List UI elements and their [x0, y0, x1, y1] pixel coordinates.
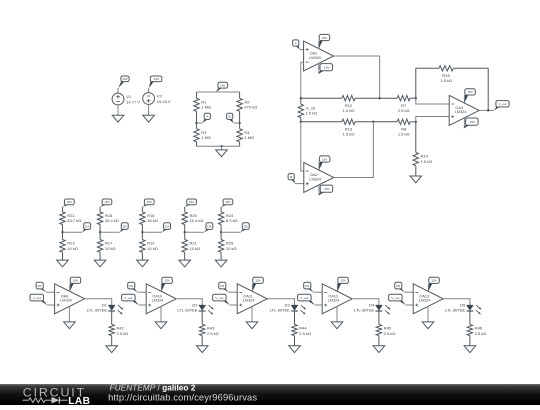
resistor R42 2.5 kohm	[109, 311, 128, 346]
resistor R13 1.5 kΩ	[301, 119, 374, 137]
power flag -15V at OA3	[464, 118, 478, 129]
junction OA1 feedback / R12 / R7	[378, 97, 380, 99]
svg-text:V_out: V_out	[300, 296, 308, 300]
svg-text:LM324: LM324	[455, 110, 467, 114]
ground at OA12	[331, 322, 343, 329]
svg-text:LM324: LM324	[328, 299, 340, 303]
svg-text:LM324: LM324	[60, 299, 72, 303]
node A flag	[202, 113, 210, 123]
node flag D1	[82, 223, 91, 233]
svg-text:1.5 kΩ: 1.5 kΩ	[343, 132, 355, 137]
junction OA2 feedback / R13 / R8	[372, 121, 374, 123]
svg-text:10 kΩ: 10 kΩ	[67, 246, 78, 251]
svg-text:-15V: -15V	[323, 187, 330, 191]
wire V_out to OA12 +	[315, 304, 322, 306]
wire OA9 ground stem	[68, 306, 70, 322]
node flag D4	[204, 223, 213, 233]
wire OA13 output to LED D5	[443, 299, 470, 305]
svg-text:15V: 15V	[322, 157, 328, 161]
ground at divider D4	[179, 260, 191, 267]
resistor R46 2.5 kohm	[467, 311, 486, 346]
svg-text:LTL-30TEE: LTL-30TEE	[270, 308, 290, 313]
power flag 15V at divider D2	[100, 199, 112, 207]
power flag 15V at V1	[118, 76, 129, 88]
junction divider D2 node	[99, 231, 101, 233]
wire OA9 output to LED D1	[85, 299, 112, 305]
svg-text:15V: 15V	[255, 279, 261, 283]
net flag V_out at OA13 input	[389, 294, 406, 305]
wire bridge bottom rail	[197, 145, 240, 147]
node A junction	[195, 122, 197, 124]
svg-text:10 kΩ: 10 kΩ	[190, 246, 201, 251]
node flag D4 at OA12 input	[304, 282, 314, 292]
power flag 15V at divider D1	[63, 199, 75, 207]
wire V2 top	[148, 88, 150, 93]
svg-text:D1: D1	[38, 284, 42, 288]
svg-text:D2: D2	[123, 224, 127, 228]
svg-text:1 MΩ: 1 MΩ	[201, 105, 211, 110]
node B flag at OA2 input	[288, 174, 295, 184]
svg-text:53.7 kΩ: 53.7 kΩ	[67, 218, 81, 223]
resistor R21 10 kohm	[182, 232, 200, 260]
power flag 15V at OA1	[319, 34, 330, 48]
node flag D3 at OA11 input	[219, 282, 229, 292]
svg-text:15V: 15V	[431, 279, 437, 283]
svg-text:15V: 15V	[322, 36, 328, 40]
wire OA10 ground stem	[160, 306, 162, 322]
power flag 15V at OA2	[319, 156, 330, 170]
wire OA1 output feedback	[334, 56, 380, 98]
node flag D2 at OA10 input	[128, 282, 138, 292]
op-amp OA3 LM324	[449, 95, 479, 125]
svg-text:-15V: -15V	[323, 65, 330, 69]
wire OA1 - input rail	[301, 62, 304, 98]
svg-text:470 kΩ: 470 kΩ	[244, 105, 257, 110]
wire V_out to OA10 +	[139, 304, 146, 306]
wire A to OA1 +	[300, 49, 304, 51]
net flag V_out at OA9 input	[30, 294, 47, 305]
wire D1 to OA9 -	[46, 291, 55, 293]
ground at V1	[112, 115, 124, 122]
wire D4 to OA12 -	[313, 291, 322, 293]
junction G bottom node	[300, 121, 302, 123]
wire B to OA2 +	[295, 183, 304, 185]
svg-text:LTL-30TEE: LTL-30TEE	[87, 308, 107, 313]
resistor R24 8.3 kohm	[218, 207, 237, 232]
svg-text:D1: D1	[85, 224, 89, 228]
wire to flag D1	[63, 231, 83, 233]
node A flag at OA1 input	[293, 40, 300, 50]
svg-text:LM324: LM324	[152, 299, 164, 303]
svg-text:LTL-30TEE: LTL-30TEE	[177, 308, 197, 313]
svg-text:10 kΩ: 10 kΩ	[105, 246, 116, 251]
svg-text:10.4 kΩ: 10.4 kΩ	[190, 218, 204, 223]
power flag 15V at OA10	[161, 277, 172, 291]
resistor R17 10 kohm	[97, 232, 115, 260]
power flag 15V at divider D4	[185, 199, 197, 207]
ground at OA10	[155, 322, 167, 329]
wire to flag D5	[221, 231, 241, 233]
svg-text:V_out: V_out	[391, 296, 399, 300]
wire bridge top rail	[197, 91, 240, 93]
svg-text:1 MΩ: 1 MΩ	[244, 135, 254, 140]
op-amp OA2 LM324	[304, 163, 334, 193]
svg-text:2.5 kΩ: 2.5 kΩ	[475, 331, 487, 336]
wire OA12 ground stem	[336, 306, 338, 322]
resistor R8 1.5 kΩ	[373, 119, 415, 137]
wire to node B flag	[234, 122, 240, 124]
svg-text:2.5 kΩ: 2.5 kΩ	[117, 331, 129, 336]
svg-text:-15V: -15V	[469, 120, 476, 124]
svg-text:B: B	[290, 175, 292, 179]
svg-text:D4: D4	[207, 224, 211, 228]
svg-text:15.18 V: 15.18 V	[157, 99, 171, 104]
svg-text:15V: 15V	[104, 200, 110, 204]
junction OA3 output / feedback	[487, 109, 489, 111]
net flag V_out at OA12 input	[298, 294, 315, 305]
wire to flag D2	[100, 231, 120, 233]
wire OA11 ground stem	[251, 306, 253, 322]
wire OA2 - input rail	[301, 122, 304, 171]
net flag V_out at OA11 input	[213, 294, 230, 305]
svg-text:15V: 15V	[122, 77, 128, 81]
svg-text:10 kΩ: 10 kΩ	[147, 246, 158, 251]
resistor R4 1 MΩ	[237, 123, 254, 146]
op-amp OA11 LM324	[237, 284, 267, 314]
resistor R3 1 MΩ	[194, 123, 211, 146]
voltage source V1 14.77 V	[112, 93, 140, 105]
resistor R1 1 MΩ	[194, 92, 211, 123]
LED D2 LTL-30TEE	[177, 303, 213, 315]
LED D4 LTL-30TEE	[354, 303, 390, 315]
ground at bridge	[216, 150, 228, 157]
wire OA13 ground stem	[427, 306, 429, 322]
svg-text:1.5 kΩ: 1.5 kΩ	[398, 132, 410, 137]
ground at V2	[143, 115, 155, 122]
ground at OA13	[422, 322, 434, 329]
node flag D2	[120, 223, 129, 233]
power flag 15V at OA3	[464, 89, 475, 103]
svg-text:15V: 15V	[73, 279, 79, 283]
resistor R14 1.5 kΩ	[413, 122, 432, 176]
svg-text:10 kΩ: 10 kΩ	[226, 246, 237, 251]
junction R7 / R15 / OA3-	[415, 97, 417, 99]
ground at OA11	[246, 322, 258, 329]
ground below R46	[464, 346, 476, 353]
svg-text:LTL-30TEE: LTL-30TEE	[445, 308, 465, 313]
resistor R20 10.4 kohm	[182, 207, 203, 232]
net flag V_out at OA10 input	[122, 294, 139, 305]
svg-text:15V: 15V	[67, 200, 73, 204]
svg-text:15V: 15V	[220, 83, 226, 87]
wire OA12 output to LED D4	[352, 299, 379, 305]
svg-text:25.4 kΩ: 25.4 kΩ	[105, 218, 119, 223]
svg-text:LM324: LM324	[243, 299, 255, 303]
svg-text:D5: D5	[244, 224, 248, 228]
svg-text:V_out: V_out	[215, 296, 223, 300]
svg-text:V_out: V_out	[124, 296, 132, 300]
svg-text:D3: D3	[165, 224, 169, 228]
node flag D1 at OA9 input	[36, 282, 46, 292]
junction bridge bottom	[220, 145, 222, 147]
node flag D5	[241, 223, 250, 233]
svg-text:LM324: LM324	[309, 56, 321, 60]
power flag 15V at OA9	[70, 277, 81, 291]
svg-text:LM324: LM324	[309, 177, 321, 181]
node B junction	[238, 122, 240, 124]
resistor R12 1.5 kΩ	[301, 96, 380, 114]
node flag D3	[162, 223, 171, 233]
junction divider D3 node	[141, 231, 143, 233]
voltage source V2 15.18 V	[143, 93, 171, 105]
ground below R43	[196, 346, 208, 353]
resistor R18 18 kohm	[140, 207, 158, 232]
svg-text:D4: D4	[305, 284, 309, 288]
resistor R7 1.5 kΩ	[380, 96, 416, 114]
junction divider D4 node	[184, 231, 186, 233]
power flag 15V at bridge top	[216, 82, 228, 92]
ground below R44	[289, 346, 301, 353]
svg-text:15V: 15V	[225, 200, 231, 204]
svg-text:2.5 kΩ: 2.5 kΩ	[384, 331, 396, 336]
svg-text:D5: D5	[396, 284, 400, 288]
power flag -15V at OA1	[318, 63, 332, 74]
resistor R43 2.5 kohm	[200, 311, 219, 346]
wire V2 bottom	[148, 104, 150, 115]
wire D2 to OA10 -	[137, 291, 146, 293]
svg-text:1.5 kΩ: 1.5 kΩ	[421, 159, 433, 164]
net flag V_out at OA3 output	[494, 101, 509, 111]
svg-text:-15V: -15V	[153, 77, 160, 81]
svg-text:15V: 15V	[146, 200, 152, 204]
power flag 15V at OA12	[337, 277, 348, 291]
resistor R15 1.5 kΩ feedback	[416, 66, 488, 111]
junction divider D1 node	[61, 231, 63, 233]
power flag 15V at OA13	[428, 277, 439, 291]
wire V_out to OA9 +	[47, 304, 54, 306]
resistor R2 470 kΩ	[237, 92, 257, 123]
svg-text:1.5 kΩ: 1.5 kΩ	[398, 108, 410, 113]
footer bar	[0, 384, 540, 405]
op-amp OA12 LM324	[322, 284, 352, 314]
wire D3 to OA11 -	[228, 291, 237, 293]
resistor R16 25.4 kohm	[97, 207, 118, 232]
wire to node A flag	[197, 122, 203, 124]
op-amp OA10 LM324	[146, 284, 176, 314]
power flag -15V at V2	[149, 76, 162, 88]
wire V1 top	[117, 88, 119, 93]
ground below R45	[373, 346, 385, 353]
op-amp OA1 LM324	[304, 41, 334, 71]
svg-text:http://circuitlab.com/ceyr9696: http://circuitlab.com/ceyr9696urvas	[108, 392, 257, 403]
ground at divider D1	[57, 260, 69, 267]
node B flag	[227, 113, 234, 123]
ground at R14	[410, 176, 422, 183]
CircuitLab logo	[23, 385, 91, 407]
node flag D5 at OA13 input	[395, 282, 405, 292]
LED D1 LTL-30TEE	[87, 303, 123, 315]
svg-text:LTL-30TEE: LTL-30TEE	[354, 308, 374, 313]
wire OA2 output feedback	[334, 122, 374, 178]
wire to flag D4	[185, 231, 205, 233]
junction R8 / R14 / OA3+	[415, 121, 417, 123]
resistor R25 10 kohm	[218, 232, 236, 260]
wire OA10 output to LED D2	[176, 299, 202, 305]
svg-text:2.5 kΩ: 2.5 kΩ	[207, 331, 219, 336]
svg-text:1 MΩ: 1 MΩ	[201, 135, 211, 140]
resistor R23 10 kohm	[60, 232, 78, 260]
wire OA11 output to LED D3	[267, 299, 294, 305]
svg-text:1.5 kΩ: 1.5 kΩ	[440, 78, 452, 83]
junction divider D5 node	[220, 231, 222, 233]
svg-text:1.5 kΩ: 1.5 kΩ	[306, 111, 318, 116]
wire R7 junction to OA3 -	[416, 98, 449, 104]
wire V_out to OA11 +	[230, 304, 237, 306]
resistor G_x5 1.5 kΩ	[298, 98, 317, 122]
svg-text:15V: 15V	[340, 279, 346, 283]
svg-text:D3: D3	[220, 284, 224, 288]
wire R8 junction to OA3 +	[416, 117, 449, 122]
junction G top node	[300, 97, 302, 99]
wire V1 bottom	[117, 105, 119, 115]
LED D5 LTL-30TEE	[445, 303, 481, 315]
ground at divider D3	[137, 260, 149, 267]
svg-text:15V: 15V	[164, 279, 170, 283]
ground at OA9	[64, 322, 76, 329]
svg-text:18 kΩ: 18 kΩ	[147, 218, 158, 223]
svg-text:14.77 V: 14.77 V	[126, 99, 140, 104]
ground below R42	[106, 346, 118, 353]
power flag -15V at OA2	[318, 185, 332, 196]
svg-text:15V: 15V	[189, 200, 195, 204]
LED D3 LTL-30TEE	[270, 303, 306, 315]
resistor R19 10 kohm	[140, 232, 158, 260]
svg-text:LM324: LM324	[419, 299, 431, 303]
op-amp OA9 LM324	[55, 284, 85, 314]
resistor R45 2.5 kohm	[376, 311, 395, 346]
svg-text:2.5 kΩ: 2.5 kΩ	[299, 331, 311, 336]
svg-text:LAB: LAB	[68, 396, 90, 405]
svg-text:V_out: V_out	[33, 296, 41, 300]
op-amp OA13 LM324	[413, 284, 443, 314]
power flag 15V at divider D5	[221, 199, 233, 207]
svg-text:B: B	[229, 115, 231, 119]
svg-text:8.3 kΩ: 8.3 kΩ	[226, 218, 238, 223]
svg-text:D2: D2	[129, 284, 133, 288]
ground at divider D2	[94, 260, 106, 267]
svg-text:15V: 15V	[467, 90, 473, 94]
wire to flag D3	[142, 231, 162, 233]
wire V_out to OA13 +	[406, 304, 413, 306]
svg-text:1.5 kΩ: 1.5 kΩ	[343, 108, 355, 113]
resistor R44 2.5 kohm	[292, 311, 311, 346]
power flag 15V at OA11	[252, 277, 263, 291]
resistor R22 53.7 kohm	[60, 207, 81, 232]
ground at divider D5	[215, 260, 227, 267]
wire D5 to OA13 -	[404, 291, 413, 293]
wire bridge ground stem	[221, 146, 223, 150]
wire OA3 output	[479, 109, 494, 111]
power flag 15V at divider D3	[142, 199, 154, 207]
svg-text:V_out: V_out	[498, 102, 506, 106]
